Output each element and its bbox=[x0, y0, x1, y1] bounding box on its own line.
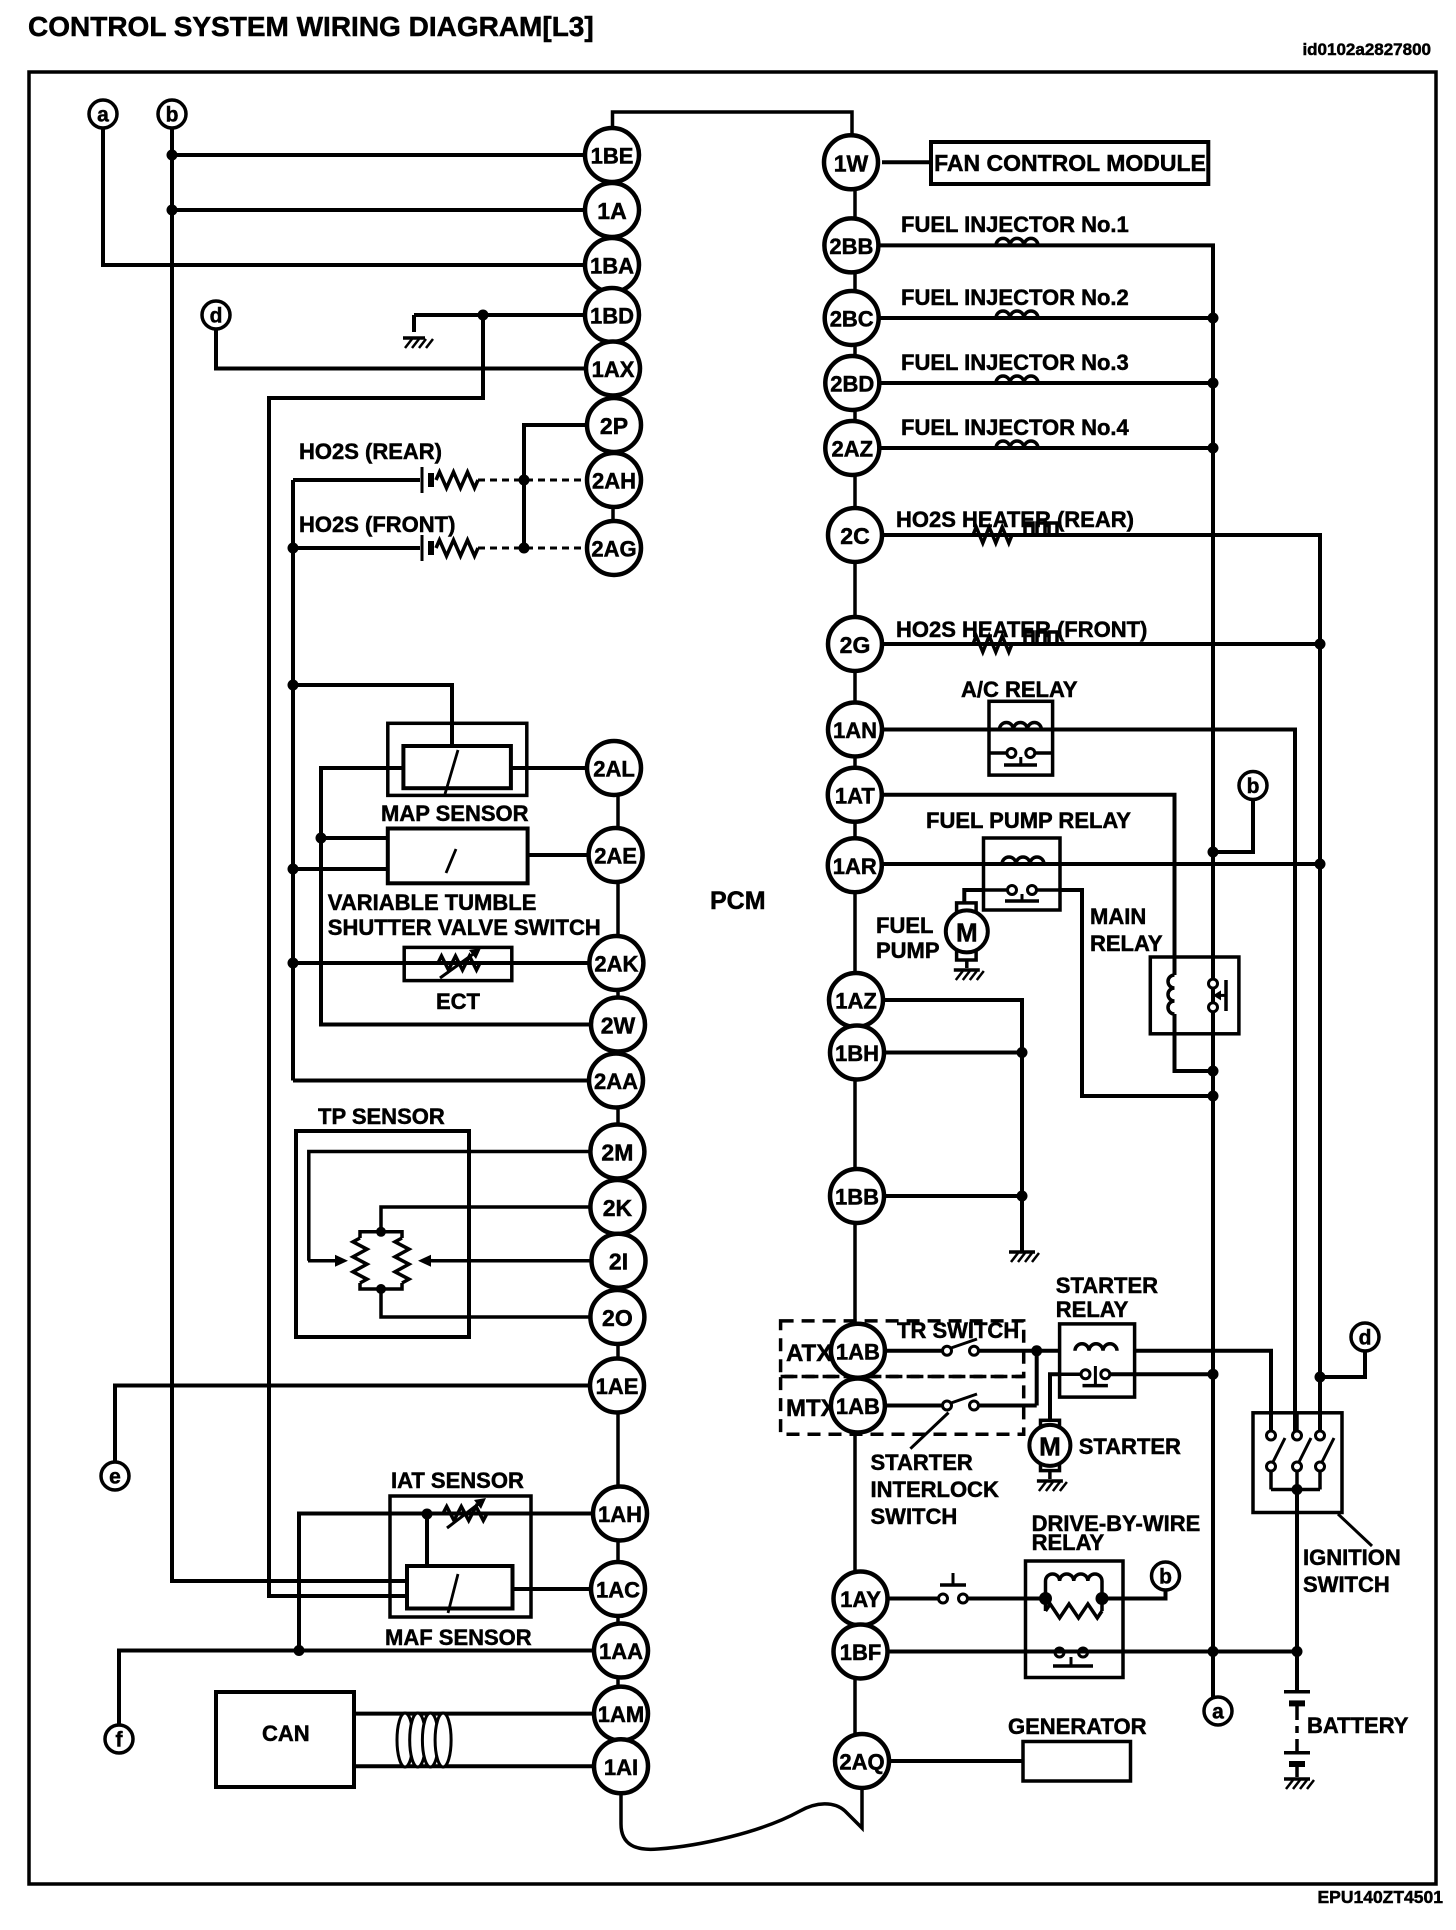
connector 1AM bbox=[594, 1687, 648, 1741]
wire 2K bbox=[381, 1207, 590, 1229]
wire 1AC bbox=[513, 1587, 592, 1591]
svg-text:1BE: 1BE bbox=[591, 144, 634, 169]
junction 1BF battery bus bbox=[1292, 1646, 1303, 1657]
A/C relay box bbox=[989, 701, 1053, 775]
junction VTSVS lower pin bbox=[288, 864, 299, 875]
svg-text:HO2S (REAR): HO2S (REAR) bbox=[299, 439, 442, 464]
svg-text:ATX: ATX bbox=[786, 1340, 832, 1367]
connector 2AG bbox=[587, 521, 641, 575]
svg-text:2P: 2P bbox=[600, 413, 628, 439]
svg-text:2AQ: 2AQ bbox=[839, 1750, 884, 1775]
svg-text:FUEL: FUEL bbox=[876, 913, 933, 938]
resistor ECT bbox=[438, 956, 480, 970]
svg-text:A/C RELAY: A/C RELAY bbox=[961, 677, 1078, 702]
connector 2W bbox=[591, 998, 645, 1052]
svg-text:1AB: 1AB bbox=[836, 1394, 880, 1419]
battery bbox=[1284, 1692, 1310, 1777]
svg-text:PUMP: PUMP bbox=[876, 938, 940, 963]
wire 2M bbox=[309, 1152, 590, 1261]
connector 1AB#14 bbox=[831, 1379, 885, 1433]
TP potentiometer top node bbox=[376, 1227, 386, 1237]
connector 1AR#9 bbox=[828, 838, 882, 892]
junction ATX-MTX bbox=[1031, 1345, 1042, 1356]
pointer starter interlock bbox=[910, 1413, 948, 1449]
svg-text:1BD: 1BD bbox=[590, 304, 634, 329]
wire 2BB bbox=[879, 245, 1213, 1697]
wire MTX to junction bbox=[979, 1404, 1037, 1408]
wire 1BD bbox=[414, 313, 585, 317]
svg-text:SHUTTER VALVE SWITCH: SHUTTER VALVE SWITCH bbox=[328, 915, 601, 940]
connector 1A bbox=[585, 183, 639, 237]
connector 2C#5 bbox=[828, 508, 882, 562]
svg-text:VARIABLE TUMBLE: VARIABLE TUMBLE bbox=[328, 890, 537, 915]
coil injector 2 bbox=[996, 311, 1038, 318]
wire 2BD bbox=[879, 381, 1213, 385]
wire main relay coil return bbox=[1175, 1014, 1214, 1071]
connector 2M bbox=[590, 1125, 644, 1179]
svg-text:STARTER: STARTER bbox=[871, 1450, 973, 1475]
connector 1W#0 bbox=[824, 135, 878, 189]
junction injector 3 bbox=[1208, 378, 1219, 389]
junction 1BB bbox=[1017, 1191, 1028, 1202]
junction d right bus bbox=[1315, 1372, 1326, 1383]
arrow IAT variable bbox=[447, 1498, 486, 1528]
DBW node left bbox=[1039, 1592, 1052, 1605]
arrow TP wiper right bbox=[418, 1255, 433, 1267]
svg-text:f: f bbox=[116, 1729, 124, 1752]
coil starter relay bbox=[1075, 1344, 1117, 1351]
wire CAN lower bbox=[354, 1764, 594, 1768]
node e bbox=[101, 1462, 129, 1490]
wire 1AZ bbox=[883, 1000, 1022, 1252]
wire ignition to battery bbox=[1295, 1490, 1299, 1692]
wire 1W to FCM bbox=[882, 160, 931, 164]
svg-text:1BA: 1BA bbox=[590, 254, 634, 279]
connector 2AL bbox=[587, 741, 641, 795]
connector 2BB#1 bbox=[824, 218, 878, 272]
svg-text:1AT: 1AT bbox=[835, 783, 875, 808]
svg-text:1AX: 1AX bbox=[592, 357, 635, 382]
ignition switch common bus bbox=[1271, 1488, 1320, 1492]
wire 1BE bbox=[172, 153, 585, 157]
svg-text:FAN CONTROL MODULE: FAN CONTROL MODULE bbox=[934, 150, 1206, 176]
svg-text:INTERLOCK: INTERLOCK bbox=[871, 1477, 999, 1502]
coil fuel pump relay bbox=[1002, 857, 1044, 864]
svg-text:TR SWITCH: TR SWITCH bbox=[897, 1318, 1019, 1343]
wire 2O bbox=[381, 1292, 590, 1317]
svg-text:FUEL INJECTOR No.3: FUEL INJECTOR No.3 bbox=[901, 350, 1129, 375]
svg-text:1AZ: 1AZ bbox=[835, 989, 877, 1014]
arrow TP wiper left bbox=[308, 1255, 348, 1267]
connector 1AZ#10 bbox=[829, 973, 883, 1027]
junction 2P-2AG dashed bbox=[519, 543, 530, 554]
PCM right column spine bbox=[853, 140, 857, 1785]
wire node-b mid elbow bbox=[1213, 800, 1253, 853]
svg-text:TP SENSOR: TP SENSOR bbox=[318, 1104, 445, 1129]
svg-text:e: e bbox=[109, 1466, 121, 1489]
node a bottom bbox=[1204, 1697, 1232, 1725]
junction IAT bbox=[422, 1509, 433, 1520]
connector 1BH#11 bbox=[830, 1026, 884, 1080]
svg-text:a: a bbox=[97, 104, 109, 127]
battery plate short HO2S rear bbox=[428, 473, 434, 487]
svg-text:a: a bbox=[1212, 1701, 1224, 1724]
svg-text:SWITCH: SWITCH bbox=[1303, 1572, 1390, 1597]
svg-text:b: b bbox=[1247, 775, 1260, 798]
connector 2P bbox=[587, 398, 641, 452]
wire 1BF bbox=[888, 1650, 1297, 1654]
connector 2AK bbox=[589, 936, 643, 990]
wire TR switch to starter relay bbox=[979, 1349, 1060, 1353]
wire ECT bbox=[293, 961, 590, 965]
svg-text:SWITCH: SWITCH bbox=[871, 1504, 958, 1529]
junction 1BD bbox=[478, 310, 489, 321]
TR switch contact bbox=[943, 1339, 979, 1355]
junction MAP top bbox=[288, 680, 299, 691]
wire HO2S rear bbox=[293, 478, 420, 482]
connector 1AE bbox=[590, 1359, 644, 1413]
connector 1BD bbox=[585, 288, 639, 342]
DBW relay box bbox=[1026, 1561, 1124, 1678]
svg-text:2G: 2G bbox=[840, 632, 871, 658]
svg-text:2BC: 2BC bbox=[830, 307, 874, 332]
heater element front bbox=[1025, 632, 1057, 644]
svg-text:HO2S (FRONT): HO2S (FRONT) bbox=[299, 512, 455, 537]
junction 2G right bus bbox=[1315, 639, 1326, 650]
svg-text:1BH: 1BH bbox=[835, 1041, 879, 1066]
wire 1BD ground stub bbox=[412, 315, 416, 332]
wire IAT left leg bbox=[299, 1514, 427, 1651]
svg-text:STARTER: STARTER bbox=[1079, 1434, 1181, 1459]
resistor TP left bbox=[353, 1238, 367, 1283]
wire 1AB MTX bbox=[885, 1404, 942, 1408]
svg-text:M: M bbox=[956, 917, 978, 947]
ignition switch pole 2 bbox=[1293, 1413, 1312, 1490]
wire 1AY bbox=[888, 1597, 938, 1601]
svg-text:FUEL INJECTOR No.2: FUEL INJECTOR No.2 bbox=[901, 285, 1129, 310]
ECT box bbox=[404, 947, 512, 980]
PCM left column upper spine bbox=[611, 150, 615, 570]
MTX dashed box bbox=[781, 1377, 1024, 1435]
ground sensor return bus bbox=[1009, 1252, 1039, 1262]
arrow ECT variable bbox=[440, 948, 481, 978]
svg-text:1A: 1A bbox=[597, 198, 626, 224]
wire 1AT bbox=[882, 795, 1175, 975]
ground starter motor bbox=[1037, 1481, 1067, 1491]
IAT sensor box bbox=[390, 1496, 531, 1617]
GENERATOR box bbox=[1023, 1742, 1131, 1782]
connector 2BD#3 bbox=[825, 356, 879, 410]
MAF sensor slash bbox=[448, 1574, 458, 1613]
ATX dashed box bbox=[781, 1321, 1024, 1377]
coil injector 4 bbox=[996, 441, 1038, 448]
svg-text:MAP SENSOR: MAP SENSOR bbox=[381, 801, 529, 826]
ground fuel pump bbox=[954, 970, 984, 980]
svg-text:2AH: 2AH bbox=[592, 469, 636, 494]
svg-text:HO2S HEATER (REAR): HO2S HEATER (REAR) bbox=[896, 507, 1134, 532]
connector 1AB#13 bbox=[831, 1324, 885, 1378]
svg-text:2AZ: 2AZ bbox=[832, 437, 874, 462]
wire 1A bbox=[172, 208, 585, 212]
connector 1AT#8 bbox=[828, 768, 882, 822]
wire 2G bbox=[882, 642, 1320, 646]
svg-text:BATTERY: BATTERY bbox=[1307, 1713, 1409, 1738]
battery plate tall HO2S rear bbox=[421, 467, 424, 493]
svg-text:b: b bbox=[166, 104, 179, 127]
connector 1BF#16 bbox=[834, 1625, 888, 1679]
svg-text:2AL: 2AL bbox=[593, 757, 635, 782]
starter relay contact bbox=[1081, 1366, 1110, 1386]
wire 1BD to V3 bbox=[269, 315, 483, 1596]
heater element rear bbox=[1025, 523, 1057, 535]
svg-text:1AI: 1AI bbox=[604, 1755, 638, 1780]
svg-text:MAF SENSOR: MAF SENSOR bbox=[385, 1625, 532, 1650]
DBW resistor bbox=[1044, 1599, 1048, 1612]
svg-text:2K: 2K bbox=[603, 1195, 633, 1221]
MAP sensor slash bbox=[445, 750, 458, 794]
wire 2BC bbox=[879, 316, 1213, 320]
wire starter relay output bbox=[1110, 1372, 1213, 1376]
CAN twisted pair coil bbox=[397, 1713, 451, 1767]
junction b-main bus bbox=[1208, 847, 1219, 858]
svg-text:b: b bbox=[1159, 1566, 1172, 1589]
wire 2AZ bbox=[879, 446, 1213, 450]
connector 1BB#12 bbox=[830, 1169, 884, 1223]
fuel pump relay contact bbox=[1005, 886, 1039, 902]
svg-text:STARTER: STARTER bbox=[1056, 1273, 1158, 1298]
connector 2K bbox=[590, 1180, 644, 1234]
wire 2AE bbox=[528, 853, 588, 857]
node a bbox=[89, 100, 117, 128]
svg-text:RELAY: RELAY bbox=[1032, 1530, 1105, 1555]
connector 1AX bbox=[586, 342, 640, 396]
MAF sensor element box bbox=[407, 1566, 513, 1609]
FUEL PUMP relay box bbox=[984, 838, 1061, 910]
svg-text:ECT: ECT bbox=[436, 989, 481, 1014]
wire MAP top feed bbox=[293, 685, 452, 747]
STARTER relay box bbox=[1060, 1324, 1135, 1397]
node b DBW bbox=[1152, 1562, 1180, 1590]
PCM top edge wire bbox=[613, 112, 853, 135]
junction main coil return bbox=[1208, 1066, 1219, 1077]
junction HO2S front bbox=[288, 543, 299, 554]
junction ignition common bbox=[1292, 1484, 1303, 1495]
wire 2P bbox=[524, 425, 586, 548]
connector 1AC bbox=[591, 1562, 645, 1616]
resistor TP right bbox=[395, 1238, 409, 1283]
starter motor M bbox=[1029, 1420, 1070, 1479]
wire fuel pump relay to motor bbox=[984, 888, 1008, 892]
wire node-d right elbow bbox=[1320, 1351, 1365, 1377]
wire CAN upper bbox=[354, 1712, 594, 1716]
svg-text:1AE: 1AE bbox=[596, 1374, 639, 1399]
DBW coil bbox=[1044, 1581, 1048, 1599]
svg-text:1AH: 1AH bbox=[598, 1502, 642, 1527]
TP potentiometer bottom node bbox=[376, 1284, 386, 1294]
wire DBW to node b bbox=[1102, 1590, 1166, 1599]
FAN CONTROL MODULE box bbox=[931, 142, 1208, 184]
svg-text:2I: 2I bbox=[609, 1249, 628, 1275]
junction 1BF main bus bbox=[1208, 1646, 1219, 1657]
wire starter coil to ignition bbox=[1135, 1351, 1271, 1431]
push switch 1AY bbox=[939, 1573, 968, 1603]
A/C relay contact bbox=[989, 749, 1053, 766]
svg-text:d: d bbox=[1359, 1327, 1372, 1350]
wire 2C bbox=[882, 535, 1320, 1431]
svg-text:M: M bbox=[1039, 1431, 1061, 1461]
svg-text:HO2S HEATER (FRONT): HO2S HEATER (FRONT) bbox=[896, 617, 1147, 642]
wire 1AE bbox=[115, 1386, 590, 1463]
connector 1BA bbox=[585, 238, 639, 292]
connector 1AA bbox=[594, 1624, 648, 1678]
svg-text:2AK: 2AK bbox=[594, 952, 638, 977]
ground battery bbox=[1284, 1779, 1314, 1789]
svg-text:GENERATOR: GENERATOR bbox=[1008, 1714, 1147, 1739]
MAP sensor element box bbox=[403, 746, 511, 788]
battery plate short HO2S front bbox=[428, 541, 434, 555]
junction b-1A bbox=[167, 205, 178, 216]
wire VTSVS upper pin bbox=[321, 836, 388, 840]
node b mid-right bbox=[1239, 772, 1267, 800]
wire fuel pump relay output bbox=[1037, 888, 1061, 892]
svg-text:FUEL INJECTOR No.1: FUEL INJECTOR No.1 bbox=[901, 212, 1129, 237]
svg-text:2C: 2C bbox=[840, 523, 869, 549]
svg-text:1AN: 1AN bbox=[833, 718, 877, 743]
VTSVS slash bbox=[446, 849, 456, 873]
coil A/C relay bbox=[999, 723, 1041, 730]
svg-text:IAT SENSOR: IAT SENSOR bbox=[391, 1468, 524, 1493]
svg-text:RELAY: RELAY bbox=[1090, 931, 1163, 956]
svg-text:PCM: PCM bbox=[710, 887, 766, 915]
wire 2AQ bbox=[889, 1759, 1023, 1763]
wire ATX-MTX link bbox=[1035, 1351, 1039, 1406]
svg-text:FUEL PUMP RELAY: FUEL PUMP RELAY bbox=[926, 808, 1131, 833]
wire 1BH bbox=[884, 1051, 1022, 1055]
pointer ignition switch bbox=[1338, 1514, 1372, 1546]
junction injector 4 bbox=[1208, 443, 1219, 454]
TP potentiometer frame bbox=[360, 1232, 381, 1238]
PCM bottom squiggle bbox=[621, 1786, 862, 1849]
svg-text:RELAY: RELAY bbox=[1056, 1297, 1129, 1322]
svg-text:2AG: 2AG bbox=[591, 537, 636, 562]
wire HO2S front bbox=[293, 546, 420, 550]
wire 2I bbox=[432, 1259, 591, 1263]
connector 2AZ#4 bbox=[825, 421, 879, 475]
wire node-d to 1AX bbox=[216, 329, 586, 369]
svg-text:id0102a2827800: id0102a2827800 bbox=[1302, 40, 1431, 59]
connector 1AH bbox=[593, 1487, 647, 1541]
svg-text:MAIN: MAIN bbox=[1090, 904, 1146, 929]
svg-text:2AE: 2AE bbox=[594, 844, 637, 869]
connector 1BE bbox=[585, 128, 639, 182]
svg-text:1AB: 1AB bbox=[836, 1339, 880, 1364]
svg-text:1AC: 1AC bbox=[596, 1578, 640, 1603]
junction VTSVS upper pin bbox=[316, 833, 327, 844]
connector 2AQ#17 bbox=[835, 1734, 889, 1788]
svg-text:2BB: 2BB bbox=[829, 234, 873, 259]
svg-text:1BB: 1BB bbox=[835, 1185, 879, 1210]
connector 2O bbox=[590, 1290, 644, 1344]
main relay contact bbox=[1209, 979, 1227, 1012]
svg-text:d: d bbox=[210, 305, 223, 328]
node d bbox=[202, 301, 230, 329]
wire 1AR bbox=[882, 862, 1320, 866]
coil injector 1 bbox=[996, 238, 1038, 245]
connector 2AH bbox=[587, 453, 641, 507]
wire 1AB ATX bbox=[885, 1349, 942, 1353]
svg-text:FUEL INJECTOR No.4: FUEL INJECTOR No.4 bbox=[901, 415, 1130, 440]
junction fuel pump output bbox=[1208, 1091, 1219, 1102]
node b bbox=[158, 100, 186, 128]
svg-text:2BD: 2BD bbox=[830, 372, 874, 397]
svg-text:EPU140ZT4501: EPU140ZT4501 bbox=[1318, 1887, 1444, 1907]
resistor HO2S front bbox=[436, 540, 478, 556]
svg-text:IGNITION: IGNITION bbox=[1303, 1545, 1401, 1570]
resistor HO2S heater rear bbox=[973, 527, 1012, 543]
svg-text:1BF: 1BF bbox=[840, 1640, 882, 1665]
CAN box bbox=[216, 1692, 354, 1787]
svg-text:2AA: 2AA bbox=[594, 1069, 638, 1094]
junction starter relay output bbox=[1208, 1369, 1219, 1380]
MAIN relay box bbox=[1150, 957, 1239, 1034]
svg-text:CAN: CAN bbox=[262, 1721, 310, 1746]
wire 1BB bbox=[884, 1194, 1022, 1198]
wire node-a to 1BA bbox=[103, 128, 585, 265]
wire starter relay to motor bbox=[1060, 1372, 1081, 1376]
connector 1AI bbox=[594, 1739, 648, 1793]
wire HO2S vertical bus bbox=[291, 480, 295, 1081]
svg-text:1AY: 1AY bbox=[840, 1587, 881, 1612]
svg-text:1AM: 1AM bbox=[598, 1702, 644, 1727]
wire 1AN bbox=[882, 730, 1295, 1432]
resistor HO2S rear bbox=[436, 472, 478, 488]
resistor HO2S heater front bbox=[973, 636, 1012, 652]
connector 1AY#15 bbox=[834, 1572, 888, 1626]
svg-text:2O: 2O bbox=[602, 1305, 633, 1331]
ground near 1BD bbox=[403, 338, 433, 348]
dashed wire to 2AH bbox=[478, 479, 587, 482]
svg-text:CONTROL SYSTEM WIRING DIAGRAM[: CONTROL SYSTEM WIRING DIAGRAM[L3] bbox=[28, 11, 594, 42]
wire 2AL bbox=[511, 766, 587, 770]
wire IAT to MAF bbox=[425, 1514, 429, 1567]
svg-text:2M: 2M bbox=[601, 1140, 633, 1166]
svg-text:1W: 1W bbox=[834, 150, 869, 176]
junction 1BH bbox=[1017, 1047, 1028, 1058]
DBW node right bbox=[1096, 1592, 1109, 1605]
starter interlock contact bbox=[943, 1394, 979, 1410]
TP sensor box bbox=[296, 1131, 469, 1337]
connector 2AE bbox=[589, 828, 643, 882]
connector 1AN#7 bbox=[828, 703, 882, 757]
resistor IAT bbox=[443, 1507, 487, 1521]
coil injector 3 bbox=[996, 376, 1038, 383]
battery plate tall HO2S front bbox=[421, 535, 424, 561]
coil main relay bbox=[1168, 975, 1174, 1014]
junction 1AR right bus bbox=[1315, 859, 1326, 870]
DBW contact bbox=[1053, 1648, 1093, 1666]
connector 2AA bbox=[589, 1054, 643, 1108]
fuel pump motor M bbox=[946, 903, 988, 968]
node d right bbox=[1351, 1323, 1379, 1351]
junction b-1BE bbox=[167, 150, 178, 161]
junction 2P-2AH dashed bbox=[519, 475, 530, 486]
VTSVS box bbox=[388, 829, 528, 884]
node f bbox=[105, 1725, 133, 1753]
connector 2I bbox=[592, 1234, 646, 1288]
svg-text:1AA: 1AA bbox=[599, 1639, 643, 1664]
connector 2G#6 bbox=[828, 617, 882, 671]
wire 1AH bbox=[427, 1512, 593, 1516]
